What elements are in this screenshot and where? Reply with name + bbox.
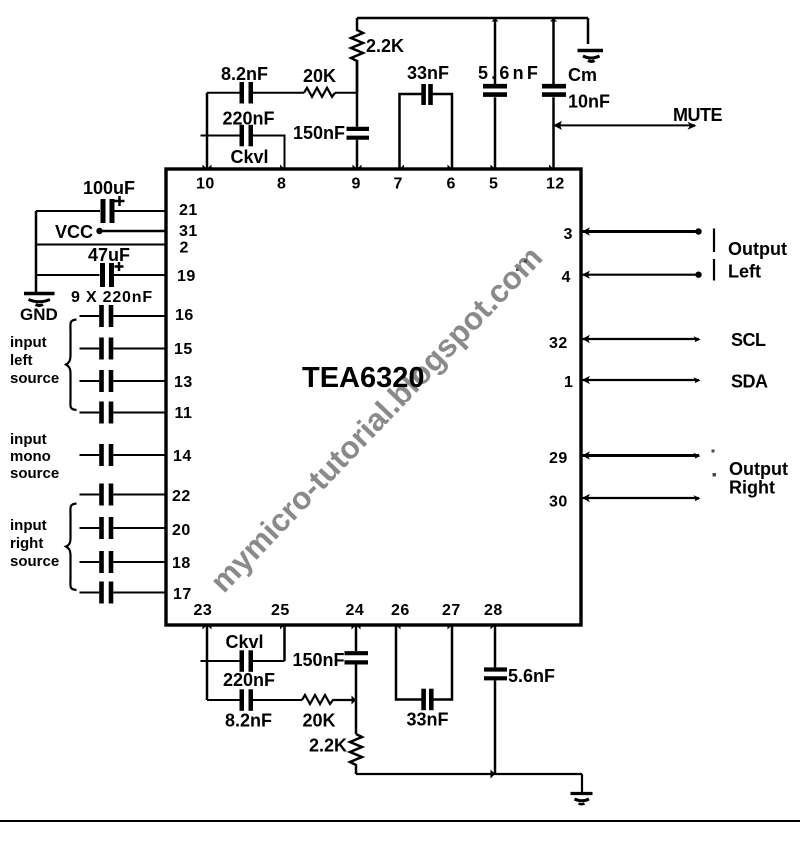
svg-text:20K: 20K <box>303 711 336 731</box>
wire top rail <box>357 18 588 44</box>
svg-text:9: 9 <box>352 176 361 193</box>
pin numbers bottom row <box>194 602 503 619</box>
wire pin 30 output <box>581 494 701 502</box>
capacitor 220nF / Ckvl (top) <box>223 109 275 168</box>
svg-text:input: input <box>10 334 47 351</box>
svg-text:SCL: SCL <box>731 330 766 350</box>
wire MUTE <box>553 105 722 130</box>
capacitor 5.6nF (top, pin 5) <box>478 18 541 169</box>
capacitor 100uF (pin 21) <box>36 178 166 223</box>
capacitor 33nF (top, pins 7-6) <box>400 63 453 169</box>
noise specks <box>516 260 716 477</box>
svg-text:150nF: 150nF <box>293 123 345 143</box>
svg-text:8.2nF: 8.2nF <box>221 64 268 84</box>
svg-text:11: 11 <box>175 405 193 422</box>
watermark mymicro-tutorial.blogspot.com <box>203 239 549 599</box>
wire pin9 line (150nF leg) <box>356 60 359 127</box>
svg-text:19: 19 <box>177 268 196 285</box>
svg-text:23: 23 <box>194 602 213 619</box>
capacitor 33nF (bottom, pins 26-27) <box>396 625 452 730</box>
svg-text:5.6nF: 5.6nF <box>508 666 555 686</box>
svg-text:Cm: Cm <box>568 65 597 85</box>
svg-text:MUTE: MUTE <box>673 105 722 125</box>
svg-text:220nF: 220nF <box>223 670 275 690</box>
label input left source <box>10 334 59 387</box>
wire pin10 stub <box>206 93 209 169</box>
svg-text:25: 25 <box>271 602 290 619</box>
svg-text:left: left <box>10 352 33 369</box>
brace input left group <box>66 320 77 411</box>
svg-text:SDA: SDA <box>731 372 768 392</box>
svg-text:Right: Right <box>729 478 775 498</box>
capacitor 47uF (pin 19) <box>36 245 166 287</box>
svg-text:47uF: 47uF <box>88 245 130 265</box>
svg-text:150nF: 150nF <box>293 650 345 670</box>
label input mono source <box>10 431 59 482</box>
brace input right group <box>66 504 77 591</box>
svg-text:9 X 220nF: 9 X 220nF <box>71 289 153 306</box>
svg-text:right: right <box>10 535 43 552</box>
wire 8.2nF row (pin10 to pin9) <box>207 92 357 94</box>
label input right source <box>10 517 59 570</box>
svg-text:2: 2 <box>180 240 189 257</box>
svg-text:source: source <box>10 370 59 387</box>
svg-text:32: 32 <box>549 335 568 352</box>
ground (bottom right) <box>571 774 593 804</box>
svg-text:18: 18 <box>172 555 191 572</box>
svg-text:7: 7 <box>394 176 403 193</box>
svg-text:Ckvl: Ckvl <box>231 147 269 167</box>
svg-text:Left: Left <box>728 262 761 282</box>
capacitor C11 input (pin 11) <box>80 402 167 424</box>
svg-text:16: 16 <box>175 307 194 324</box>
svg-text:31: 31 <box>179 223 198 240</box>
capacitor C20 input (pin 20) <box>80 517 167 539</box>
wire pin 4 output <box>581 271 702 279</box>
pin numbers right column <box>549 226 573 511</box>
wire pin 2 <box>36 244 166 246</box>
svg-text:20: 20 <box>172 522 191 539</box>
resistor 2.2K (bottom) <box>309 734 362 774</box>
IC U1 TEA6320 body <box>166 169 581 625</box>
label Output Left with bracket <box>714 229 787 282</box>
svg-text:27: 27 <box>442 602 461 619</box>
svg-text:12: 12 <box>546 176 565 193</box>
capacitor 5.6nF (bottom, pin 28) <box>484 625 555 774</box>
resistor 20K (bottom) <box>302 695 356 731</box>
wire pin25 stub <box>283 625 286 661</box>
svg-text:30: 30 <box>549 494 568 511</box>
svg-text:6: 6 <box>447 176 456 193</box>
svg-text:2.2K: 2.2K <box>309 736 347 756</box>
junction 20K / pin24 (bottom) <box>352 696 357 705</box>
svg-text:8: 8 <box>277 176 286 193</box>
svg-text:14: 14 <box>173 448 192 465</box>
pin numbers top row <box>196 176 565 193</box>
label Output Right <box>729 459 788 498</box>
capacitor C16 input (pin 16) <box>80 305 167 327</box>
svg-text:TEA6320: TEA6320 <box>302 362 425 394</box>
svg-text:input: input <box>10 431 47 448</box>
svg-text:5: 5 <box>489 176 498 193</box>
junction top rail nodes <box>492 18 558 22</box>
svg-text:8.2nF: 8.2nF <box>225 711 272 731</box>
wire pin 3 output <box>581 227 702 235</box>
node VCC (pin 31) <box>55 222 166 242</box>
svg-text:Output: Output <box>729 459 788 479</box>
capacitor C13 input (pin 13) <box>80 370 167 392</box>
svg-text:4: 4 <box>562 269 571 286</box>
wire left rail <box>35 211 38 292</box>
capacitor C18 input (pin 18) <box>80 551 167 573</box>
svg-text:21: 21 <box>179 202 198 219</box>
svg-text:20K: 20K <box>303 66 336 86</box>
capacitor 150nF (bottom, pin 24) <box>293 625 369 734</box>
svg-text:input: input <box>10 517 47 534</box>
svg-text:2.2K: 2.2K <box>366 36 404 56</box>
svg-text:33nF: 33nF <box>407 63 449 83</box>
svg-text:5.6nF: 5.6nF <box>478 63 541 83</box>
capacitor 150nF (top, on pin 9) <box>293 123 369 169</box>
svg-text:mono: mono <box>10 448 51 465</box>
svg-text:GND: GND <box>20 305 58 324</box>
capacitor 8.2nF (bottom) <box>207 689 302 730</box>
junction nubs on IC edges <box>203 165 554 630</box>
svg-text:15: 15 <box>174 341 193 358</box>
capacitor 8.2nF (top) <box>221 64 268 104</box>
svg-text:Ckvl: Ckvl <box>226 632 264 652</box>
wire bottom rail <box>356 773 582 775</box>
capacitor C15 input (pin 15) <box>80 338 167 360</box>
capacitor C22 input (pin 22) <box>80 484 167 506</box>
border bottom line <box>0 820 800 822</box>
resistor 2.2K (top) <box>351 18 404 93</box>
wire pin 29 output <box>581 451 701 459</box>
svg-text:Output: Output <box>728 239 787 259</box>
svg-text:24: 24 <box>346 602 365 619</box>
svg-text:33nF: 33nF <box>407 710 449 730</box>
wire pin23 stub <box>206 625 209 700</box>
svg-text:100uF: 100uF <box>83 178 135 198</box>
resistor 20K (top) <box>303 66 336 97</box>
svg-text:17: 17 <box>173 586 192 603</box>
svg-text:3: 3 <box>564 226 573 243</box>
svg-text:26: 26 <box>391 602 410 619</box>
svg-text:29: 29 <box>549 450 568 467</box>
svg-text:VCC: VCC <box>55 222 93 242</box>
svg-text:10: 10 <box>196 176 215 193</box>
wire 220nF row (to pin 8) <box>201 136 285 170</box>
wire pin 1 SDA <box>581 372 768 392</box>
svg-text:1: 1 <box>564 374 573 391</box>
svg-text:22: 22 <box>172 488 191 505</box>
ground (top right) <box>578 51 604 62</box>
svg-text:10nF: 10nF <box>568 92 610 112</box>
pin numbers left column <box>172 202 198 603</box>
svg-text:source: source <box>10 465 59 482</box>
svg-text:13: 13 <box>174 374 193 391</box>
capacitor Ckvl 220nF (bottom) <box>201 632 285 690</box>
capacitor C14 input mono (pin 14) <box>80 444 167 466</box>
capacitor C17 input (pin 17) <box>80 582 167 604</box>
svg-text:source: source <box>10 553 59 570</box>
svg-text:220nF: 220nF <box>223 109 275 129</box>
svg-text:28: 28 <box>484 602 503 619</box>
junction pin28 / bottom rail <box>491 770 496 779</box>
capacitor Cm 10nF (pin 12) <box>542 18 610 169</box>
ground GND (left) <box>20 294 58 325</box>
wire pin 32 SCL <box>581 330 766 350</box>
